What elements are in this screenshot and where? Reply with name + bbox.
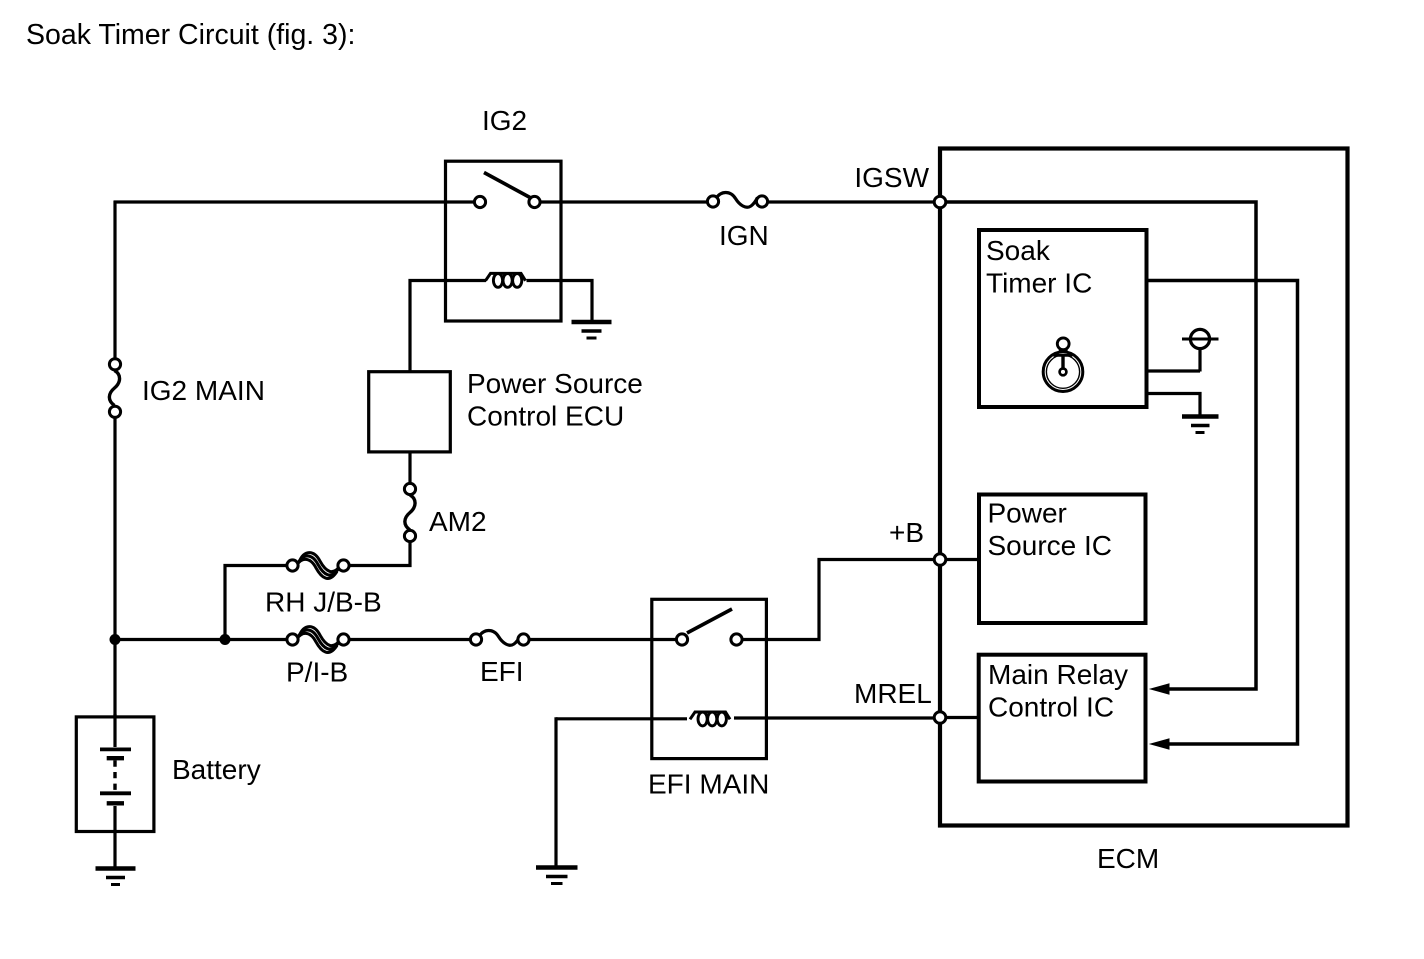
- wire EFI MAIN relay output to +B node: [743, 560, 935, 640]
- svg-text:Battery: Battery: [172, 754, 261, 785]
- wire EFI MAIN coil left to ground stem: [556, 717, 687, 720]
- node MREL: [934, 712, 946, 724]
- wire probe stem: [1198, 350, 1201, 372]
- node +B: [934, 554, 946, 566]
- battery box: [76, 717, 154, 832]
- svg-text:IGSW: IGSW: [854, 162, 929, 193]
- wire battery negative lead to ground: [113, 806, 116, 869]
- coil EFI MAIN relay: [690, 712, 730, 726]
- svg-text:IG2 MAIN: IG2 MAIN: [142, 375, 265, 406]
- svg-text:P/I-B: P/I-B: [286, 657, 348, 688]
- arrow into Main Relay Control IC (from IGSW line): [1149, 683, 1170, 694]
- switch lever EFI MAIN: [687, 609, 732, 633]
- fusible link RH J/B-B: [287, 553, 349, 579]
- wire top row left segment (battery branch to IG2 switch contact): [114, 200, 474, 203]
- wire branch up to RH J/B-B link: [225, 566, 287, 640]
- svg-text:+B: +B: [889, 517, 924, 548]
- svg-text:MREL: MREL: [854, 678, 932, 709]
- wire battery positive lead inside box: [113, 714, 116, 747]
- wire Power Source Control ECU up to IG2 relay coil: [410, 281, 486, 372]
- svg-text:Control ECU: Control ECU: [467, 401, 624, 432]
- svg-text:Main Relay: Main Relay: [988, 659, 1128, 690]
- ECM box: [940, 149, 1348, 826]
- wire top row from IG2 switch to IGN fuse: [540, 200, 707, 203]
- junction RH J/B-B branch: [220, 634, 231, 645]
- wire Soak Timer IC pin to internal ground: [1146, 394, 1200, 416]
- node IGSW: [934, 196, 946, 208]
- switch contact circles EFI MAIN: [676, 634, 687, 645]
- wire top row from IGN fuse to IGSW node: [768, 200, 934, 203]
- svg-text:Soak Timer Circuit (fig. 3):: Soak Timer Circuit (fig. 3):: [26, 19, 355, 51]
- svg-text:AM2: AM2: [429, 506, 487, 537]
- svg-text:Timer IC: Timer IC: [986, 268, 1092, 299]
- switch contact circles IG2: [474, 196, 485, 207]
- wire middle row EFI fuse to EFI MAIN relay contact: [529, 638, 677, 641]
- svg-text:Power Source: Power Source: [467, 368, 643, 399]
- ground IG2 relay coil: [572, 322, 612, 338]
- switch lever IG2: [484, 173, 530, 198]
- arrow into Main Relay Control IC (from Soak Timer line): [1149, 738, 1170, 749]
- svg-text:Soak: Soak: [986, 235, 1051, 266]
- fuse AM2 (vertical): [405, 495, 415, 530]
- wire left vertical upper (to IG2 MAIN fuse): [113, 201, 116, 360]
- ground EFI MAIN: [536, 868, 578, 884]
- wire EFI MAIN coil to MREL node: [734, 716, 934, 719]
- svg-text:Power: Power: [988, 498, 1067, 529]
- svg-text:Source IC: Source IC: [988, 530, 1113, 561]
- wire AM2 fuse to Power Source Control ECU: [408, 454, 411, 483]
- probe symbol (circle with bar): [1182, 329, 1219, 348]
- wire RH J/B-B to AM2 fuse: [350, 543, 411, 566]
- svg-text:ECM: ECM: [1097, 843, 1159, 874]
- svg-text:EFI: EFI: [480, 656, 524, 687]
- ground battery: [96, 869, 136, 885]
- battery cell plates: [100, 749, 131, 803]
- relay box IG2: [446, 161, 562, 321]
- IC box Power Source IC: [979, 495, 1146, 624]
- fuse EFI (horizontal): [479, 631, 521, 646]
- op IC box Soak Timer IC: [979, 230, 1147, 407]
- fuse IGN (horizontal): [716, 193, 758, 208]
- junction battery branch: [110, 634, 121, 645]
- fuse IG2 MAIN (vertical): [109, 371, 119, 406]
- coil IG2 relay: [486, 273, 526, 287]
- svg-text:EFI MAIN: EFI MAIN: [648, 769, 769, 800]
- wire Soak Timer IC output down to lower arrow: [1146, 281, 1298, 745]
- svg-text:RH J/B-B: RH J/B-B: [265, 587, 382, 618]
- wire Soak Timer IC pin to probe stem: [1146, 369, 1200, 372]
- wire MREL node to Main Relay Control IC: [946, 716, 978, 719]
- wire middle row battery to P/I-B link: [114, 638, 287, 641]
- wire ground stem below EFI MAIN coil: [554, 717, 557, 867]
- ground ECM internal (Soak Timer IC): [1182, 417, 1219, 433]
- IC box Main Relay Control IC: [979, 655, 1146, 782]
- svg-text:IG2: IG2: [482, 105, 527, 136]
- wire IG2 relay coil to ground stem: [527, 281, 593, 322]
- wire IGSW node into ECM down to upper arrow: [946, 202, 1256, 689]
- wire middle row P/I-B to EFI fuse: [350, 638, 471, 641]
- svg-text:IGN: IGN: [719, 220, 769, 251]
- stopwatch icon (Soak Timer IC): [1043, 338, 1083, 392]
- box Power Source Control ECU: [369, 372, 451, 452]
- svg-text:Control IC: Control IC: [988, 692, 1114, 723]
- relay box EFI MAIN: [652, 599, 767, 758]
- wire left vertical lower (IG2 MAIN fuse to battery): [113, 418, 116, 717]
- fusible link P/I-B: [287, 627, 349, 653]
- wire +B node to Power Source IC: [946, 558, 978, 561]
